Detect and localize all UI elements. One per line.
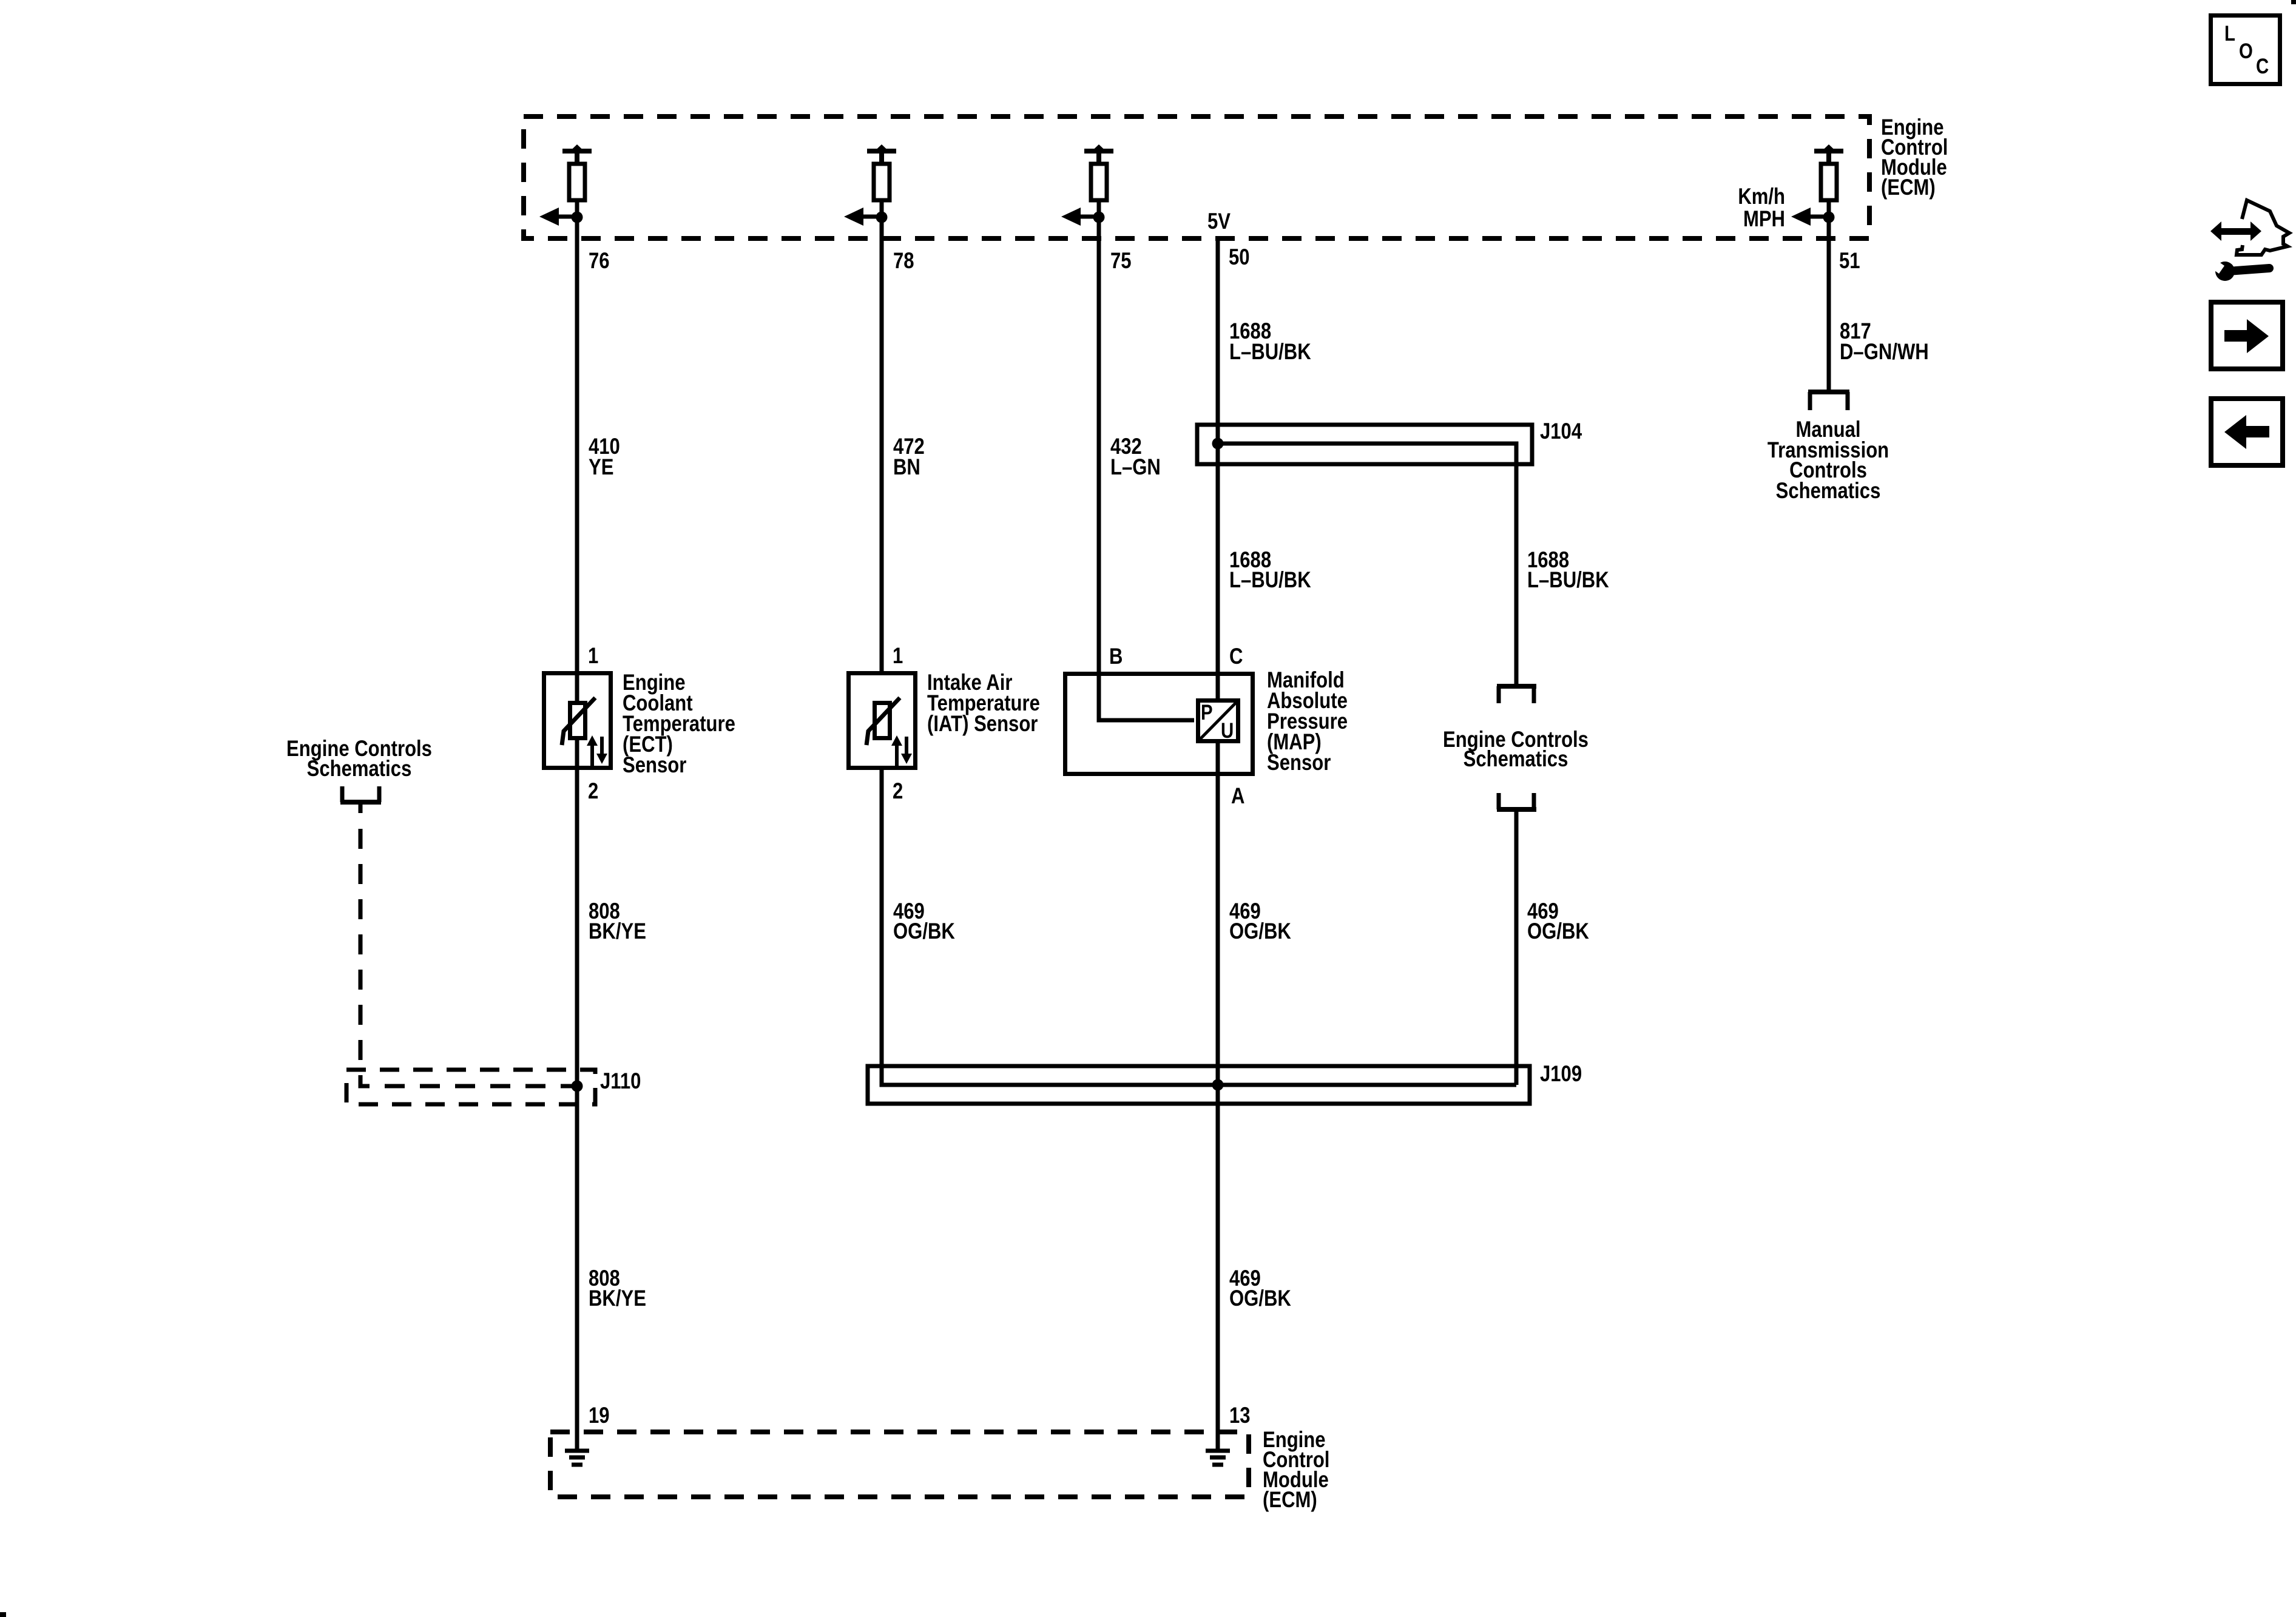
ECT sensor label [623, 670, 735, 778]
svg-text:O: O [2239, 39, 2253, 63]
ECM top label [1881, 115, 1948, 200]
MAP P/U transducer [1198, 701, 1238, 743]
wire label 817 D-GN/WH [1840, 319, 1929, 365]
svg-text:BK/YE: BK/YE [589, 919, 646, 944]
svg-text:19: 19 [589, 1403, 610, 1428]
IAT sensor label [927, 670, 1040, 737]
wire label 808 BK/YE lower [589, 1266, 646, 1311]
svg-text:L: L [2224, 22, 2235, 46]
svg-text:50: 50 [1229, 245, 1250, 270]
diagnostic icon hood outline [2237, 200, 2289, 255]
wire label 469 OG/BK (MAP) [1229, 899, 1291, 944]
svg-text:Schematics: Schematics [307, 757, 412, 781]
MAP sensor label [1267, 668, 1348, 775]
svg-text:C: C [1229, 644, 1243, 669]
off-page connector to J109 (Engine Controls, up) [1497, 793, 1536, 809]
svg-text:OG/BK: OG/BK [1229, 1286, 1291, 1311]
svg-text:OG/BK: OG/BK [893, 919, 955, 944]
signal arrow pin75 [1061, 208, 1099, 226]
svg-text:Sensor: Sensor [623, 753, 686, 778]
wire 410 YE (pin76 to ECT pin1) [575, 217, 579, 1450]
svg-text:78: 78 [893, 249, 914, 274]
junction dot pin51 [1823, 212, 1835, 223]
svg-text:BN: BN [893, 455, 920, 480]
resistor R-ECT (pin 76 pull-up) [562, 144, 592, 217]
diagnostic icon wrench [2209, 258, 2269, 281]
splice J104 branch wire [1218, 444, 1516, 686]
Manual Transmission Controls Schematics label [1768, 417, 1889, 504]
svg-text:76: 76 [589, 249, 610, 274]
wire label 469 OG/BK right [1527, 899, 1589, 944]
wire label 432 L-GN [1110, 434, 1161, 480]
junction dot J109 [1212, 1079, 1224, 1091]
wire label 472 BN [893, 434, 925, 480]
svg-text:Schematics: Schematics [1776, 479, 1881, 504]
Engine Controls Schematics right label [1443, 727, 1589, 772]
splice J104 box [1197, 425, 1532, 464]
junction dot pin75 [1093, 212, 1105, 223]
svg-text:YE: YE [589, 455, 613, 480]
junction dot pin76 [572, 212, 583, 223]
svg-text:J110: J110 [600, 1069, 641, 1094]
svg-text:J104: J104 [1540, 419, 1582, 444]
off-page connector left (Engine Controls, up) [340, 786, 381, 802]
wire 469 OG/BK IAT ground path [882, 770, 1516, 1085]
signal arrow pin78 [844, 208, 882, 226]
wire 432 L-GN (pin75 to MAP pinB) [1099, 217, 1194, 720]
diagnostic icon double arrow [2210, 221, 2261, 241]
svg-text:1: 1 [588, 644, 598, 669]
off-page connector to Manual Transmission [1808, 392, 1849, 410]
svg-text:P: P [1201, 701, 1213, 724]
corner mark bottom left [0, 1612, 6, 1617]
svg-text:Sensor: Sensor [1267, 751, 1331, 775]
resistor R-MAP (pin 75 pull-up) [1084, 144, 1113, 217]
junction dot J110 [572, 1081, 583, 1092]
IAT sensor box [849, 673, 916, 768]
wire 1688 L-BU/BK (pin50 5V to MAP pinC) [1216, 237, 1220, 1450]
svg-text:51: 51 [1839, 249, 1860, 274]
MAP sensor box [1065, 674, 1253, 774]
svg-text:Schematics: Schematics [1464, 747, 1568, 772]
svg-text:L–BU/BK: L–BU/BK [1527, 568, 1609, 593]
ground pin 19 [565, 1451, 589, 1465]
dashed wire to J110 [359, 802, 363, 813]
ECT thermistor [562, 698, 607, 766]
svg-text:75: 75 [1110, 249, 1132, 274]
svg-text:13: 13 [1229, 1403, 1251, 1428]
svg-text:L–BU/BK: L–BU/BK [1229, 340, 1311, 365]
wire label 469 OG/BK (IAT) [893, 899, 955, 944]
LOC reference box [2211, 16, 2280, 84]
svg-text:J109: J109 [1540, 1062, 1582, 1087]
svg-text:BK/YE: BK/YE [589, 1286, 646, 1311]
off-page connector from J104 (Engine Controls, down) [1497, 686, 1536, 703]
svg-text:D–GN/WH: D–GN/WH [1840, 340, 1929, 365]
wire 472 BN (pin78 to IAT pin1) [880, 217, 884, 671]
wire label 1688 L-BU/BK right [1527, 548, 1609, 593]
svg-text:OG/BK: OG/BK [1527, 919, 1589, 944]
wire label 808 BK/YE upper [589, 899, 646, 944]
junction dot pin78 [876, 212, 888, 223]
junction dot J104 [1212, 438, 1224, 450]
forward arrow box [2211, 302, 2283, 369]
Engine Controls Schematics left label [286, 737, 432, 781]
signal arrow pin51 [1791, 208, 1829, 226]
splice J110 box (dashed) [346, 1070, 595, 1104]
svg-text:5V: 5V [1207, 209, 1231, 234]
svg-text:B: B [1109, 644, 1123, 669]
wire 469 OG/BK right branch [1514, 809, 1519, 1085]
svg-text:C: C [2256, 55, 2269, 78]
ECM bottom label [1263, 1428, 1329, 1513]
back arrow box [2211, 399, 2283, 465]
ECT sensor box [544, 673, 611, 768]
signal arrow pin76 [539, 208, 577, 226]
svg-text:(IAT) Sensor: (IAT) Sensor [927, 712, 1038, 737]
ground pin 13 [1206, 1451, 1230, 1465]
svg-text:OG/BK: OG/BK [1229, 919, 1291, 944]
svg-text:L–GN: L–GN [1110, 455, 1161, 480]
svg-text:1: 1 [893, 644, 903, 669]
svg-text:(ECM): (ECM) [1881, 175, 1936, 200]
resistor R-IAT (pin 78 pull-up) [867, 144, 896, 217]
svg-text:A: A [1231, 784, 1244, 809]
wire label 410 YE [589, 434, 620, 480]
ECM bottom module box (dashed) [550, 1432, 1249, 1497]
splice J109 box [868, 1066, 1530, 1104]
ECM top module box (dashed) [524, 116, 1869, 238]
svg-text:MPH: MPH [1743, 207, 1785, 232]
wire label 469 OG/BK lower [1229, 1266, 1291, 1311]
svg-text:(ECM): (ECM) [1263, 1488, 1317, 1513]
wire 817 D-GN/WH (pin51) [1827, 217, 1831, 392]
svg-text:2: 2 [588, 779, 598, 804]
svg-text:Km/h: Km/h [1738, 184, 1785, 209]
corner mark top right [2291, 0, 2296, 4]
wire label 1688 L-BU/BK mid [1229, 548, 1311, 593]
svg-text:2: 2 [893, 779, 903, 804]
wire label 1688 L-BU/BK upper [1229, 319, 1311, 365]
svg-text:U: U [1221, 719, 1234, 743]
svg-text:L–BU/BK: L–BU/BK [1229, 568, 1311, 593]
IAT thermistor [866, 698, 912, 766]
resistor R-VSS (pin 51 pull-up) [1814, 144, 1843, 217]
Km/h MPH label [1738, 184, 1785, 232]
